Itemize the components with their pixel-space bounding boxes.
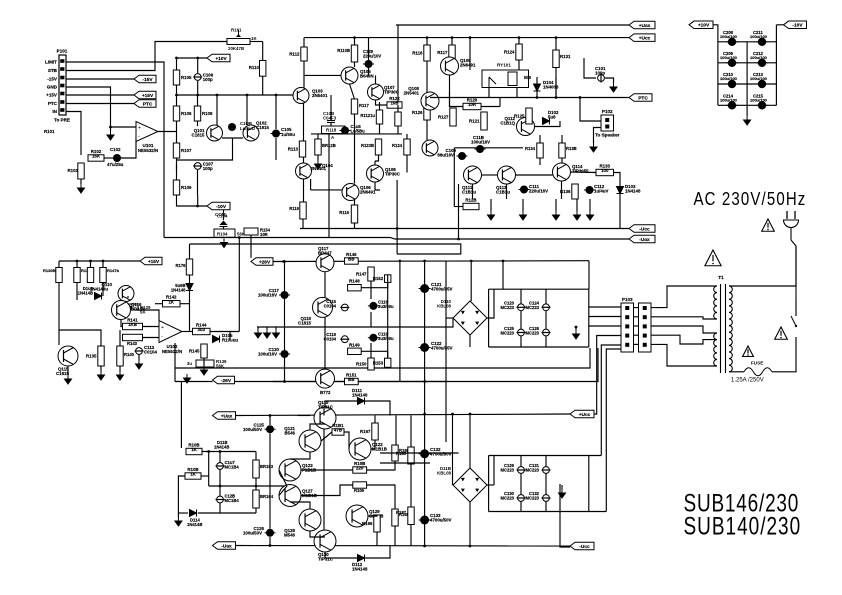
ground: [273, 329, 280, 338]
resistor R117: [437, 45, 455, 60]
svg-text:AC 230V/50Hz: AC 230V/50Hz: [694, 189, 807, 210]
node net +26V: [251, 258, 273, 266]
capacitor C128: [216, 496, 225, 503]
wire: [376, 532, 378, 546]
resistor R128b: [315, 139, 321, 155]
wire: [488, 456, 490, 512]
node net -Ucc: [629, 225, 655, 233]
svg-text:R13B: R13B: [566, 146, 577, 151]
svg-text:220: 220: [356, 466, 364, 471]
wire: [555, 78, 557, 98]
capacitor C213: [756, 80, 767, 88]
svg-text:MB: MB: [524, 75, 531, 80]
wire: [795, 312, 797, 316]
transistor Q114: [553, 163, 571, 181]
resistor R118b: [351, 205, 357, 223]
capacitor C125: [265, 425, 276, 433]
resistor R168: [392, 509, 398, 526]
transistor Q111: [464, 166, 482, 184]
svg-text:R135: R135: [86, 354, 97, 359]
resistor R146: [345, 252, 359, 264]
resistor R186: [392, 445, 398, 461]
svg-text:100: 100: [601, 168, 609, 173]
wire +Uax/+Ucc rail: [235, 414, 570, 416]
ground: [221, 239, 228, 248]
wire caps bottom: [489, 346, 589, 348]
capacitor C211: [756, 38, 767, 46]
wire: [379, 102, 381, 110]
resistor R117: [351, 99, 357, 114]
ground: [201, 366, 208, 375]
wire: [189, 291, 191, 304]
wire: [303, 38, 305, 47]
svg-text:1.25A /250V: 1.25A /250V: [731, 378, 764, 384]
wire IN: [66, 112, 81, 156]
svg-text:+10V: +10V: [698, 23, 710, 29]
resistor R110: [260, 61, 266, 77]
transistor Q118: [313, 297, 333, 317]
wire caps top: [489, 455, 602, 457]
wire: [634, 325, 639, 327]
wire: [284, 262, 286, 382]
wire top: [250, 41, 263, 43]
wire: [634, 307, 639, 309]
resistor R137: [74, 268, 80, 283]
svg-text:-Ucc: -Ucc: [639, 226, 650, 232]
label AC 230V/50Hz: [694, 189, 807, 210]
capacitor C215: [756, 101, 767, 109]
svg-text:RY101: RY101: [497, 63, 511, 68]
wire: [520, 473, 522, 494]
svg-text:20K47B: 20K47B: [228, 46, 244, 51]
wire: [324, 272, 326, 298]
wire: [490, 199, 492, 211]
svg-text:R116: R116: [339, 210, 349, 215]
wire: [410, 416, 412, 448]
label SUB146/230: [684, 489, 800, 517]
wire: [59, 330, 101, 346]
ground: [264, 329, 271, 338]
resistor R145: [189, 344, 207, 358]
wire: [370, 343, 372, 358]
svg-text:R109: R109: [181, 185, 192, 190]
resistor R133: [596, 164, 614, 176]
wire bus 382: [273, 348, 598, 382]
svg-text:MC223: MC223: [501, 468, 515, 473]
transistor Q123: [279, 459, 301, 481]
wire bank row: [718, 83, 777, 85]
wire: [522, 199, 524, 211]
wire: [545, 473, 547, 494]
resistor R105: [173, 70, 192, 85]
svg-text:-Uax: -Uax: [639, 237, 650, 243]
svg-text:-10V: -10V: [216, 204, 227, 210]
diode D111: [358, 398, 365, 405]
svg-text:4700u/50V: 4700u/50V: [430, 452, 452, 457]
wire: [361, 351, 388, 358]
svg-text:100u/100: 100u/100: [720, 34, 738, 39]
wire: [102, 283, 104, 297]
wire +15V: [66, 94, 134, 96]
svg-text:1N414B: 1N414B: [78, 291, 93, 296]
wire: [197, 58, 199, 73]
wire -26V rail: [235, 381, 447, 383]
svg-text:TIP31C: TIP31C: [318, 405, 334, 410]
svg-text:R119: R119: [289, 206, 299, 211]
svg-text:PTC: PTC: [638, 95, 648, 101]
wire: [310, 179, 312, 190]
ground: [590, 143, 597, 152]
wire: [367, 485, 395, 509]
svg-text:BD139: BD139: [131, 307, 145, 312]
ground: [587, 211, 594, 220]
wire: [387, 282, 389, 327]
ground: [315, 160, 322, 169]
wire +Uax drop: [397, 25, 399, 105]
resistor R106: [173, 106, 192, 121]
wire: [325, 401, 358, 407]
wire: [395, 416, 397, 446]
wire: [58, 261, 60, 268]
resistor R125: [514, 108, 532, 124]
svg-text:KBL08: KBL08: [437, 471, 451, 476]
wire: [325, 552, 358, 558]
svg-text:C1B1u: C1B1u: [462, 190, 476, 195]
svg-text:100u/100: 100u/100: [720, 76, 738, 81]
wire: [371, 440, 375, 449]
svg-text:3u: 3u: [187, 361, 192, 366]
wire: [399, 261, 401, 382]
capacitor C108: [323, 111, 337, 123]
wire +26V rail: [273, 260, 589, 263]
svg-text:1u/4uV: 1u/4uV: [594, 189, 608, 194]
resistor R161 (pot): [227, 28, 257, 52]
resistor R141: [123, 318, 143, 330]
resistor R135: [86, 346, 104, 366]
wire: [370, 312, 372, 327]
wire: [536, 77, 538, 84]
node net +Ucc: [629, 34, 655, 42]
ground: [184, 374, 191, 383]
wire: [80, 179, 82, 184]
wire bus 244: [190, 244, 461, 254]
wire: [301, 469, 353, 471]
svg-text:NE5532/N: NE5532/N: [162, 349, 182, 354]
wire: [370, 281, 372, 299]
wire base bus: [177, 94, 307, 96]
svg-text:Q104: Q104: [322, 163, 333, 168]
wire mid bus: [311, 133, 402, 135]
svg-text:100p: 100p: [595, 71, 605, 76]
svg-text:2N6491: 2N6491: [360, 190, 376, 195]
transistor Q108: [421, 92, 439, 110]
wire +10V rail: [177, 57, 208, 59]
wire: [198, 512, 256, 514]
capacitor C109: [457, 152, 468, 160]
wire: [275, 95, 277, 129]
resistor R150: [356, 358, 374, 370]
svg-text:R124: R124: [392, 143, 403, 148]
resistor R149: [348, 342, 362, 354]
capacitor C127: [216, 463, 225, 470]
resistor R147: [356, 267, 374, 281]
ground: [98, 371, 105, 380]
wire: [354, 38, 356, 45]
svg-text:+15V: +15V: [142, 93, 154, 99]
capacitor C129b: [517, 495, 526, 502]
resistor R121: [469, 112, 487, 130]
wire caps mid to -Ucc: [560, 484, 570, 547]
node net PTC: [134, 100, 156, 108]
svg-text:GND: GND: [47, 85, 58, 90]
wire main filter rail: [424, 261, 426, 414]
wire: [545, 501, 547, 511]
capacitor C113: [135, 348, 144, 355]
wire: [368, 515, 377, 517]
wire: [445, 262, 447, 382]
svg-text:LIMIT: LIMIT: [45, 60, 57, 65]
transistor Q116: [112, 301, 131, 320]
svg-text:R121: R121: [469, 119, 480, 124]
svg-text:Lu/5uU: Lu/5uU: [240, 126, 255, 131]
wire: [303, 104, 305, 142]
wire: [589, 199, 591, 211]
wire: [368, 68, 370, 75]
wire: [323, 429, 325, 530]
svg-text:+15V: +15V: [148, 259, 160, 265]
capacitor C133: [419, 516, 431, 525]
wire: [269, 433, 271, 528]
wire: [410, 525, 412, 546]
wire: [100, 366, 102, 371]
svg-text:KBL08: KBL08: [437, 304, 451, 309]
wire input feed: [180, 382, 182, 448]
ground: [78, 184, 85, 193]
ground: [744, 116, 751, 125]
wire Q105 base: [304, 74, 342, 76]
wire bus 368: [175, 348, 590, 368]
wire: [634, 343, 639, 345]
svg-text:BR164: BR164: [260, 494, 274, 499]
wire: [176, 85, 178, 106]
wire: [379, 124, 381, 134]
resistor R152: [373, 275, 391, 283]
capacitor C111: [519, 186, 530, 194]
svg-text:R167: R167: [360, 429, 371, 434]
wire: [539, 158, 541, 165]
node net -Uax: [629, 235, 655, 243]
wire: [269, 537, 271, 546]
wire: [76, 283, 78, 301]
transistor Q102: [243, 125, 259, 141]
svg-text:R124: R124: [504, 50, 515, 55]
wire Q106 base: [311, 189, 342, 191]
wire: [290, 452, 310, 459]
wire: [59, 260, 140, 262]
resistor R109: [173, 180, 192, 195]
wire: [520, 289, 522, 304]
svg-text:3u3/50u: 3u3/50u: [378, 336, 394, 341]
svg-text:1K: 1K: [191, 447, 197, 452]
wire bank row: [718, 104, 777, 106]
svg-text:R104: R104: [217, 232, 228, 237]
resistor R135b: [559, 143, 565, 158]
svg-text:-Ucc: -Ucc: [579, 544, 590, 550]
svg-text:1N414B: 1N414B: [214, 445, 229, 450]
wire: [406, 134, 408, 139]
svg-text:MC223: MC223: [501, 305, 515, 310]
transformer T1: [714, 275, 733, 373]
wire: [189, 244, 191, 259]
capacitor C115: [340, 304, 349, 311]
wire: [576, 199, 578, 211]
svg-text:MC223: MC223: [501, 331, 515, 336]
svg-text:1K: 1K: [251, 36, 257, 41]
transistor Q110: [118, 286, 134, 302]
wire: [102, 261, 104, 268]
svg-text:220u/10V: 220u/10V: [363, 54, 381, 59]
svg-text:C0104: C0104: [324, 304, 337, 309]
wire: [589, 316, 621, 318]
wire: [310, 531, 325, 537]
wire: [375, 182, 380, 190]
wire: [449, 92, 451, 107]
resistor R176: [186, 259, 192, 275]
node net +Uax: [629, 21, 655, 29]
svg-text:R140: R140: [124, 352, 135, 357]
capacitor C127b: [517, 467, 526, 474]
resistor R108: [194, 106, 213, 121]
wire: [330, 123, 332, 126]
svg-text:SUB140/230: SUB140/230: [684, 512, 802, 540]
svg-text:100u/16V: 100u/16V: [471, 140, 490, 145]
transistor Q108b: [367, 165, 384, 182]
svg-text:2N6491: 2N6491: [460, 63, 476, 68]
wire: [361, 275, 388, 288]
wire T1 sec1 bot: [651, 317, 717, 319]
wire: [197, 81, 199, 95]
resistor R139: [187, 359, 227, 369]
wire: [375, 155, 379, 161]
wire +Uax top: [396, 24, 629, 26]
svg-text:FUSE: FUSE: [751, 361, 763, 366]
wire caps feed: [502, 261, 504, 289]
diode D107: [95, 293, 102, 300]
svg-text:B546: B546: [285, 431, 296, 436]
label SUB140/230: [684, 512, 802, 540]
wire bank right rail: [775, 25, 777, 106]
wire: [594, 128, 602, 144]
svg-text:R116: R116: [412, 51, 423, 56]
wire: [394, 526, 396, 546]
transistor Q103: [293, 88, 309, 104]
wire: [555, 38, 557, 50]
ground: [107, 131, 114, 140]
wire to U101 in+: [111, 126, 137, 128]
resistor R104: [214, 229, 246, 237]
connector P101: [54, 49, 70, 123]
wire: [536, 91, 538, 98]
svg-text:TIP31C: TIP31C: [318, 557, 334, 562]
wire: [451, 38, 453, 45]
wire: [177, 195, 208, 206]
capacitor C116: [368, 302, 379, 310]
wire: [219, 469, 221, 486]
wire to U101 in-: [121, 137, 136, 158]
svg-text:+15V: +15V: [46, 93, 58, 98]
svg-text:TIP30C: TIP30C: [384, 90, 400, 95]
capacitor C118: [340, 336, 349, 343]
diode D105: [213, 336, 220, 343]
resistor R140: [117, 346, 123, 366]
wire: [376, 100, 388, 105]
resistor R164: [253, 490, 259, 508]
wire: [257, 327, 259, 329]
svg-text:47B: 47B: [334, 428, 342, 433]
wire: [619, 194, 621, 229]
svg-text:C04F3: C04F3: [323, 116, 337, 121]
svg-text:IN: IN: [52, 109, 57, 114]
ground: [573, 330, 580, 339]
wire: [310, 424, 325, 430]
svg-text:1KB: 1KB: [128, 322, 137, 327]
resistor R144: [193, 323, 211, 335]
resistor R111: [351, 45, 357, 62]
svg-text:R110B: R110B: [337, 48, 350, 53]
wire: [255, 508, 257, 513]
wire: [545, 311, 547, 329]
svg-text:P101: P101: [57, 49, 68, 54]
node net -Ucc lower: [570, 542, 594, 550]
wire: [488, 289, 490, 347]
resistor R114: [376, 110, 382, 124]
svg-text:1u/50u: 1u/50u: [281, 132, 295, 137]
svg-text:STB: STB: [48, 68, 58, 73]
wire: [426, 61, 428, 105]
wire: [506, 184, 508, 199]
wire: [375, 75, 377, 84]
relay RY101: [482, 63, 529, 88]
node net -10V: [207, 202, 230, 210]
wire: [127, 296, 129, 298]
svg-text:R161: R161: [231, 28, 242, 33]
svg-text:R117: R117: [359, 103, 369, 108]
wire: [580, 98, 601, 122]
wire: [216, 95, 218, 125]
svg-text:R123B: R123B: [361, 143, 374, 148]
svg-text:MC223: MC223: [501, 496, 515, 501]
wire +Ucc rail: [304, 37, 629, 39]
ground: [488, 211, 495, 220]
svg-text:+26V: +26V: [259, 259, 271, 265]
warning triangle 3: [775, 327, 788, 339]
svg-text:PTC: PTC: [143, 101, 153, 107]
wire: [143, 326, 160, 328]
wire: [119, 366, 121, 371]
wire T1 sec2 bot: [651, 344, 717, 366]
wire: [302, 219, 304, 229]
ground: [610, 83, 617, 92]
wire: [174, 343, 176, 382]
wire: [499, 98, 501, 107]
svg-text:BB: BB: [348, 377, 354, 382]
svg-text:MC223: MC223: [526, 496, 540, 501]
wire bank left rail: [713, 25, 718, 106]
resistor R119b: [300, 202, 306, 219]
resistor R122: [387, 96, 402, 108]
svg-text:100u/50V: 100u/50V: [243, 427, 262, 432]
wire: [772, 337, 796, 372]
